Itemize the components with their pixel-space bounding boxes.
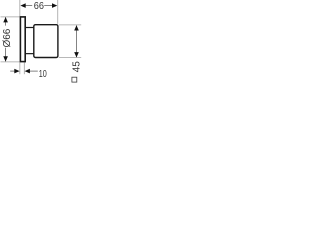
- extension line: plate front (x=24.3) bottom: [23, 62, 25, 74]
- sleeve top edge: [26, 27, 34, 29]
- extension line: handle bottom (y=57.65) right: [59, 57, 81, 59]
- bottom dimension 10: right-pointing arrowhead: [14, 69, 19, 74]
- extension line: handle top (y=24.85) right: [59, 24, 81, 26]
- svg-text:10: 10: [39, 69, 47, 80]
- left dimension Ø66: line lower segment: [5, 48, 7, 62]
- extension line: plate top (y=16.85): [1, 16, 20, 18]
- svg-text:45: 45: [72, 61, 83, 73]
- escutcheon plate (side view): [20, 17, 25, 62]
- right dimension square45: square symbol of label: [72, 77, 77, 82]
- right dimension square45: down arrowhead: [74, 52, 79, 57]
- extension line: wall/plate back (x=19.85) bottom: [19, 62, 21, 74]
- right dimension square45: dim line: [76, 26, 78, 58]
- svg-text:Ø66: Ø66: [2, 28, 13, 47]
- top dimension 66: left arrowhead: [20, 3, 25, 8]
- top dimension 66: right arrowhead: [52, 3, 57, 8]
- bottom dimension 10: left tail line: [10, 70, 15, 72]
- sleeve bottom edge: [26, 53, 34, 55]
- bottom dimension 10: left-pointing arrowhead: [25, 69, 30, 74]
- left dimension Ø66: up arrowhead: [3, 17, 8, 22]
- right dimension square45: up arrowhead: [74, 25, 79, 30]
- bottom dimension 10: right tail line: [29, 70, 38, 72]
- handle (square 45, side view): [34, 25, 58, 58]
- svg-text:66: 66: [34, 1, 45, 12]
- top dimension 66: line left segment: [25, 5, 32, 7]
- top dimension 66: line right segment: [44, 5, 52, 7]
- extension line: plate bottom (y=61.85): [1, 61, 20, 63]
- extension line: handle front (x=57.75) top: [57, 0, 59, 24]
- left dimension Ø66: down arrowhead: [3, 56, 8, 61]
- left dimension Ø66: line upper segment: [5, 17, 7, 25]
- extension line: wall/plate back (x=19.85) top: [19, 0, 21, 16]
- background: [0, 0, 82, 88]
